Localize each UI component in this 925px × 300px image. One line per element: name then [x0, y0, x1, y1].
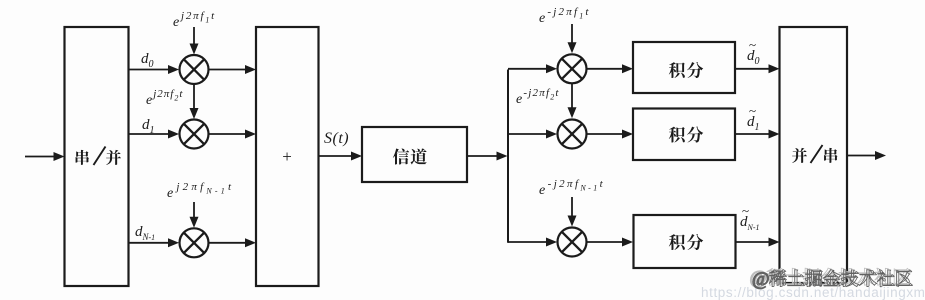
svg-text:+: + [282, 147, 292, 166]
svg-text:S(t): S(t) [324, 130, 349, 147]
svg-text:https://blog.csdn.net/handaiji: https://blog.csdn.net/handaijingxm [701, 285, 925, 300]
svg-text:@: @ [752, 269, 770, 290]
